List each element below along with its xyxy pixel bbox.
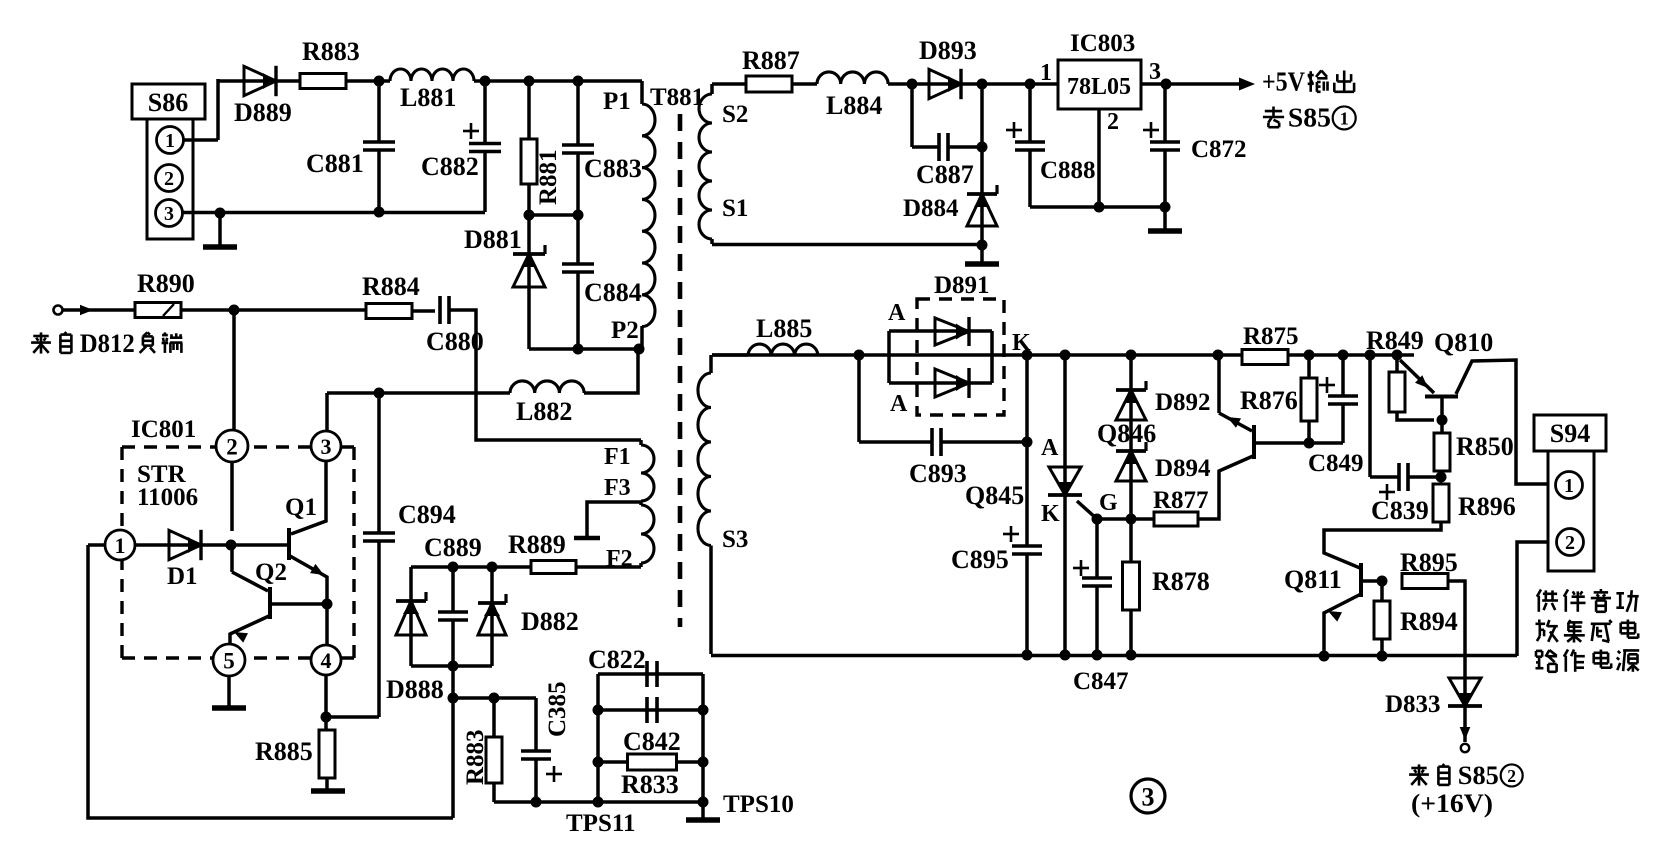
svg-text:D893: D893 xyxy=(919,36,977,65)
svg-text:R850: R850 xyxy=(1456,432,1514,461)
svg-text:D882: D882 xyxy=(521,607,579,636)
svg-text:D881: D881 xyxy=(464,225,522,254)
svg-text:C887: C887 xyxy=(916,160,974,189)
svg-text:3: 3 xyxy=(321,434,332,459)
svg-text:C893: C893 xyxy=(909,459,967,488)
svg-text:D891: D891 xyxy=(934,272,990,299)
svg-text:L884: L884 xyxy=(826,91,882,120)
svg-text:C894: C894 xyxy=(398,500,456,529)
svg-text:S86: S86 xyxy=(148,88,188,117)
svg-text:R890: R890 xyxy=(137,269,195,298)
svg-text:2: 2 xyxy=(1565,532,1575,554)
svg-text:D892: D892 xyxy=(1155,389,1211,416)
svg-text:C884: C884 xyxy=(584,278,642,307)
svg-text:S1: S1 xyxy=(722,195,748,222)
svg-text:C822: C822 xyxy=(588,645,646,674)
svg-text:L881: L881 xyxy=(400,83,456,112)
svg-text:Q810: Q810 xyxy=(1434,328,1493,357)
svg-text:S2: S2 xyxy=(722,101,748,128)
svg-text:R894: R894 xyxy=(1400,607,1458,636)
svg-text:R883: R883 xyxy=(302,37,360,66)
svg-text:R884: R884 xyxy=(362,272,420,301)
svg-text:TPS11: TPS11 xyxy=(566,810,635,837)
svg-text:TPS10: TPS10 xyxy=(723,791,794,818)
svg-text:G: G xyxy=(1099,490,1118,516)
svg-text:R895: R895 xyxy=(1400,548,1458,577)
svg-text:L882: L882 xyxy=(516,397,572,426)
svg-text:1: 1 xyxy=(1040,60,1052,86)
svg-text:3: 3 xyxy=(1142,782,1155,811)
svg-text:R883: R883 xyxy=(462,729,489,785)
svg-text:T881: T881 xyxy=(650,84,704,111)
svg-text:Q811: Q811 xyxy=(1284,565,1342,594)
svg-text:D812: D812 xyxy=(80,329,135,358)
svg-text:R878: R878 xyxy=(1152,567,1210,596)
svg-text:2: 2 xyxy=(164,168,174,190)
svg-text:Q2: Q2 xyxy=(255,559,287,586)
svg-text:D884: D884 xyxy=(903,195,959,222)
svg-text:R877: R877 xyxy=(1153,487,1209,514)
svg-text:C849: C849 xyxy=(1308,450,1364,477)
svg-text:S85: S85 xyxy=(1288,103,1331,133)
svg-text:R881: R881 xyxy=(535,149,562,205)
svg-text:IC803: IC803 xyxy=(1070,30,1135,57)
svg-text:P2: P2 xyxy=(611,317,639,344)
svg-text:F1: F1 xyxy=(604,444,631,470)
svg-text:R896: R896 xyxy=(1458,492,1516,521)
svg-text:3: 3 xyxy=(1149,59,1161,85)
svg-text:C872: C872 xyxy=(1191,136,1247,163)
svg-text:11006: 11006 xyxy=(137,484,198,511)
svg-text:IC801: IC801 xyxy=(131,416,196,443)
svg-text:C842: C842 xyxy=(623,727,681,756)
svg-text:C889: C889 xyxy=(424,533,482,562)
svg-text:D1: D1 xyxy=(167,563,198,590)
svg-text:K: K xyxy=(1012,330,1031,356)
svg-text:C839: C839 xyxy=(1371,496,1429,525)
svg-text:D833: D833 xyxy=(1385,691,1441,718)
svg-text:78L05: 78L05 xyxy=(1067,74,1131,100)
svg-text:K: K xyxy=(1041,501,1060,527)
svg-text:C882: C882 xyxy=(421,152,479,181)
svg-text:1: 1 xyxy=(1340,109,1349,129)
svg-text:A: A xyxy=(888,300,906,326)
svg-text:C881: C881 xyxy=(306,149,364,178)
svg-text:R887: R887 xyxy=(742,46,800,75)
svg-text:2: 2 xyxy=(226,434,238,459)
svg-text:R889: R889 xyxy=(508,530,566,559)
svg-text:C847: C847 xyxy=(1073,668,1129,695)
svg-text:1: 1 xyxy=(1564,475,1574,497)
svg-text:+5V: +5V xyxy=(1262,67,1305,97)
svg-text:4: 4 xyxy=(321,648,332,673)
svg-text:1: 1 xyxy=(115,533,126,558)
svg-text:C895: C895 xyxy=(951,545,1009,574)
svg-text:Q1: Q1 xyxy=(285,494,317,521)
svg-text:D889: D889 xyxy=(234,98,292,127)
svg-text:C883: C883 xyxy=(584,154,642,183)
svg-text:R875: R875 xyxy=(1243,323,1299,350)
svg-text:5: 5 xyxy=(223,648,235,673)
svg-text:C385: C385 xyxy=(544,681,571,737)
svg-text:P1: P1 xyxy=(603,88,631,115)
svg-text:2: 2 xyxy=(1507,766,1516,786)
svg-text:F3: F3 xyxy=(604,475,631,501)
svg-text:F2: F2 xyxy=(606,546,633,572)
svg-text:R849: R849 xyxy=(1366,326,1424,355)
svg-text:S85: S85 xyxy=(1458,761,1499,790)
svg-text:R885: R885 xyxy=(255,737,313,766)
svg-text:R876: R876 xyxy=(1240,386,1298,415)
svg-text:L885: L885 xyxy=(756,314,812,343)
svg-text:S3: S3 xyxy=(722,526,748,553)
svg-text:C888: C888 xyxy=(1040,157,1096,184)
svg-text:S94: S94 xyxy=(1550,419,1590,448)
svg-text:Q846: Q846 xyxy=(1097,419,1156,448)
svg-text:Q845: Q845 xyxy=(965,481,1024,510)
svg-text:(+16V): (+16V) xyxy=(1411,789,1493,818)
svg-text:D894: D894 xyxy=(1155,455,1211,482)
svg-text:A: A xyxy=(1041,435,1059,461)
svg-text:C880: C880 xyxy=(426,327,484,356)
svg-text:1: 1 xyxy=(165,130,175,152)
svg-text:3: 3 xyxy=(164,203,174,225)
svg-text:2: 2 xyxy=(1107,109,1119,135)
svg-text:R833: R833 xyxy=(621,770,679,799)
svg-text:A: A xyxy=(890,391,908,417)
svg-text:D888: D888 xyxy=(386,675,444,704)
